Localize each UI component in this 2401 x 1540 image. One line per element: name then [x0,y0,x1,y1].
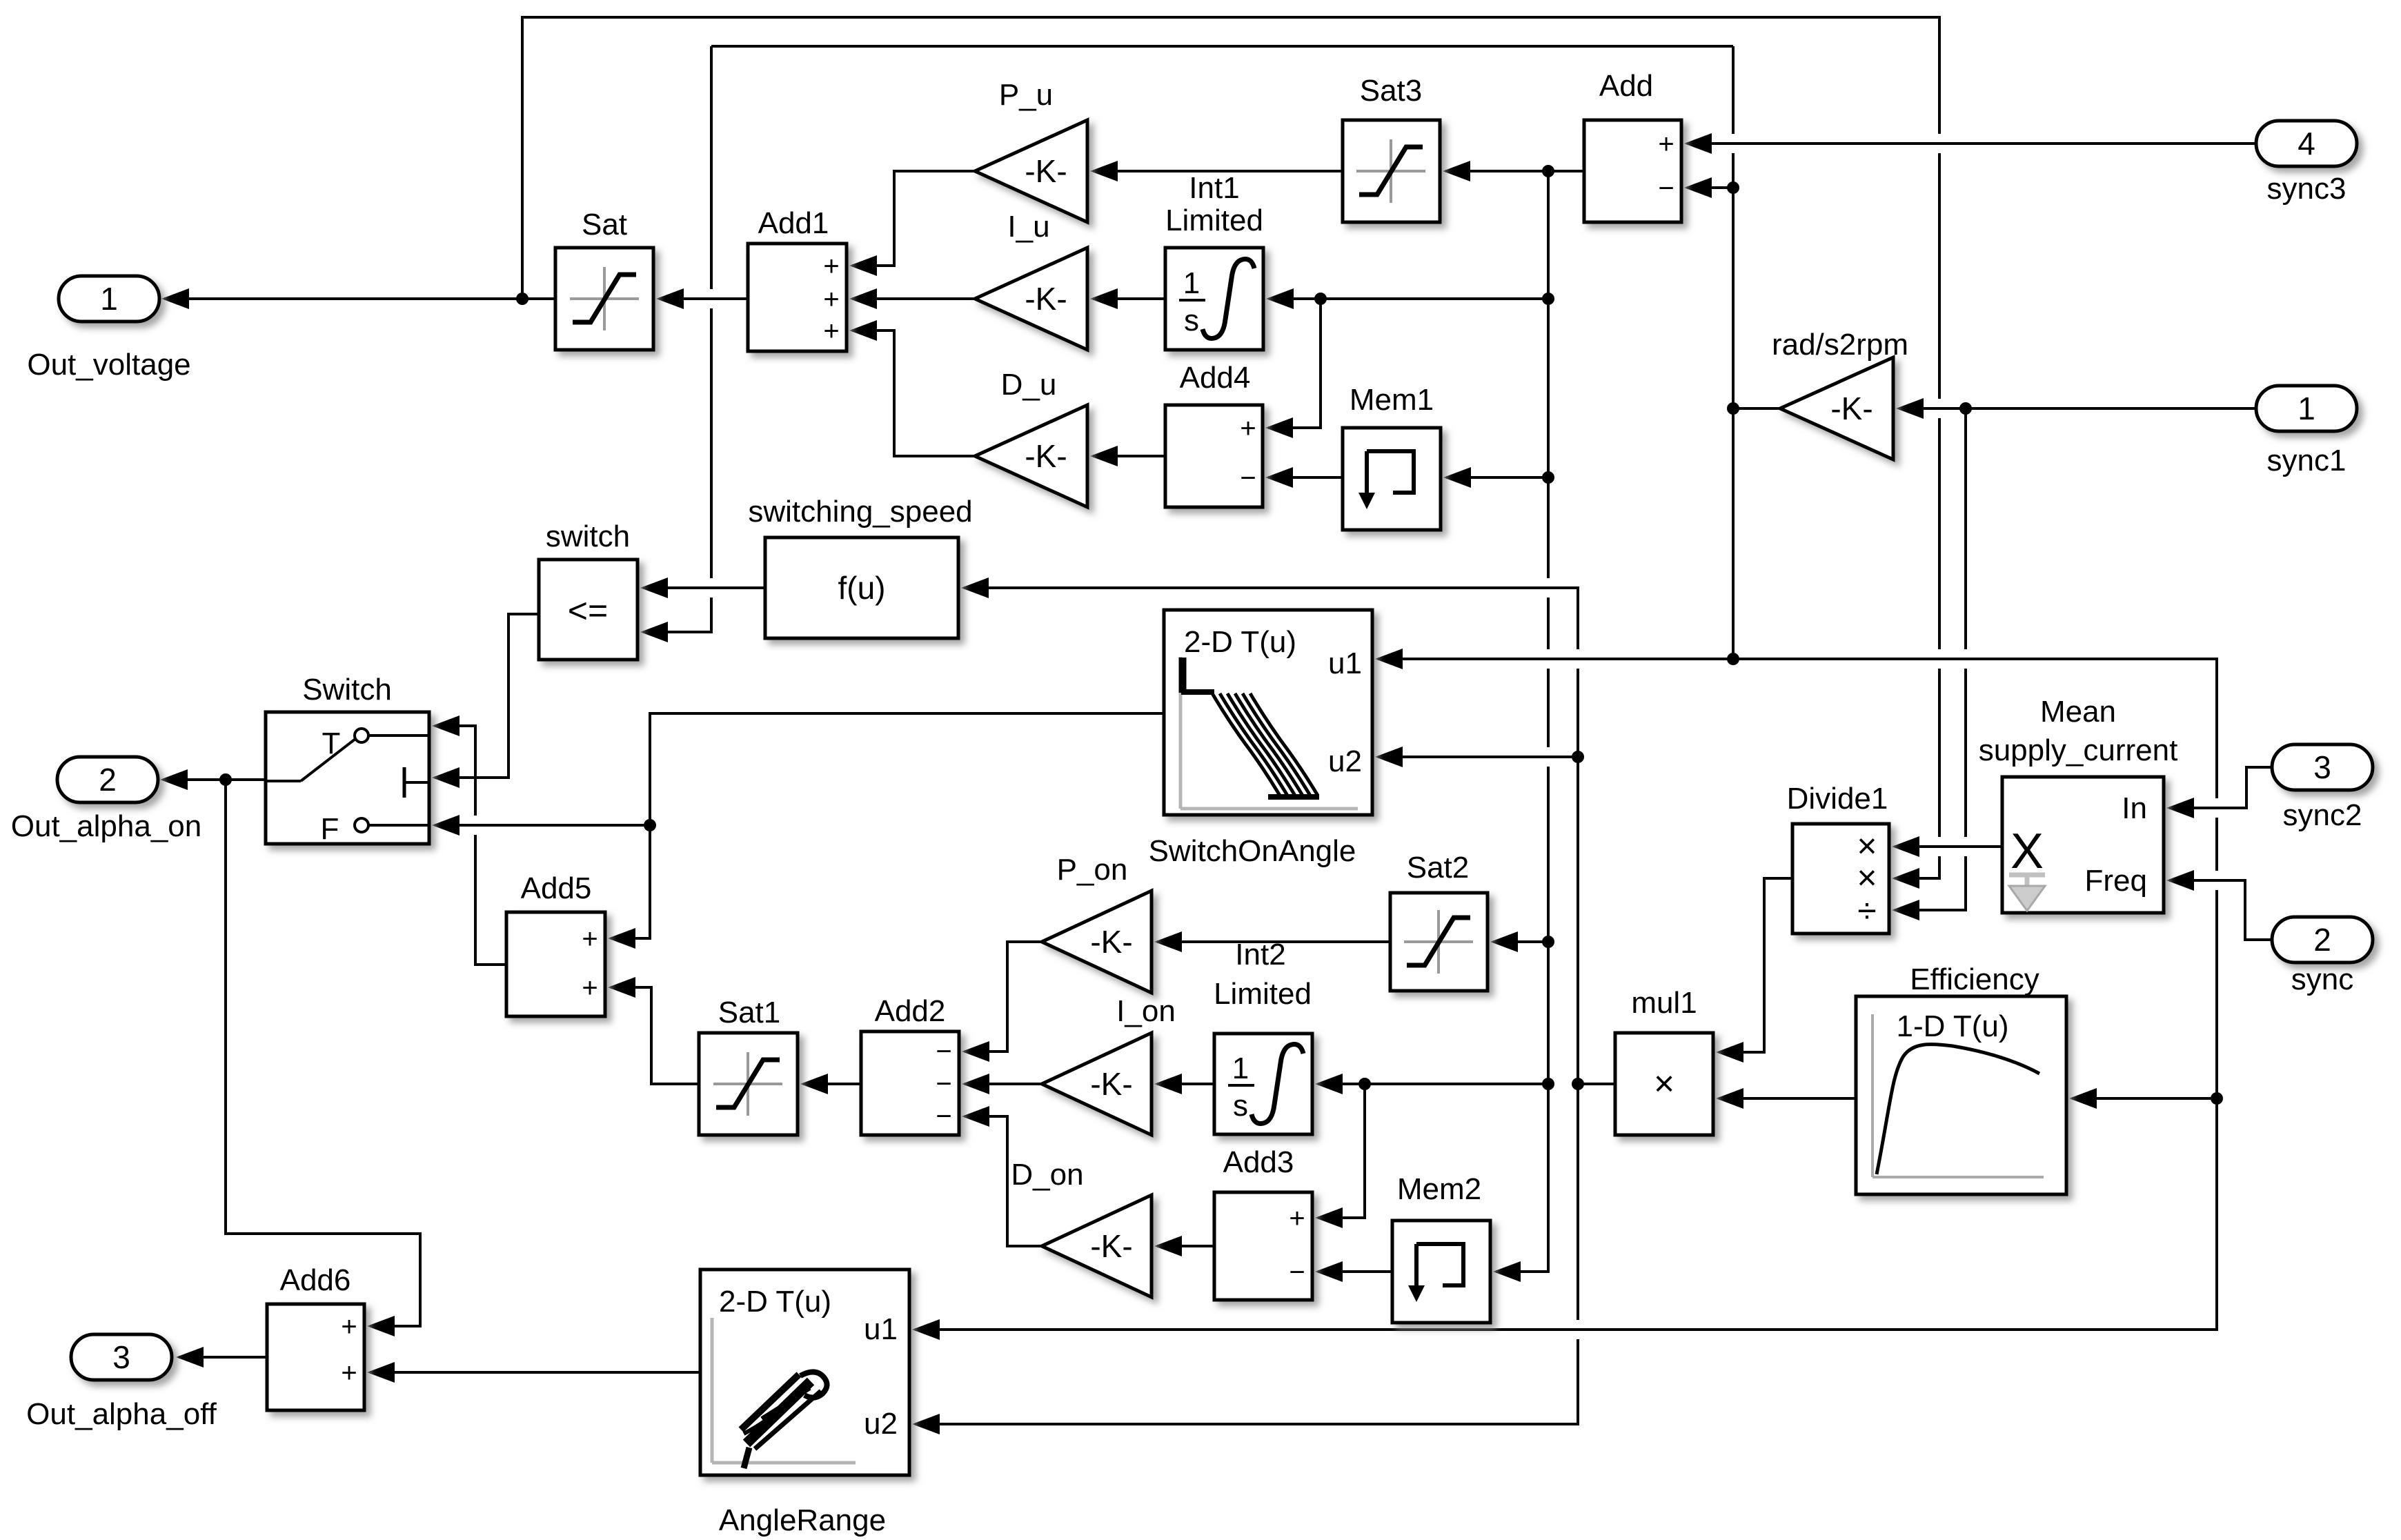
wire: I_on out to Add2 in2 [965,1083,1042,1085]
gain P_u [975,120,1087,222]
integrator Int2 Limited [1214,1034,1312,1134]
svg-text:Mean: Mean [2040,695,2116,729]
svg-text:2-D T(u): 2-D T(u) [1184,625,1296,659]
svg-text:Out_alpha_on: Out_alpha_on [11,809,201,843]
svg-text:Add: Add [1599,69,1653,103]
wire: rpm rail right segment to x=3213 [915,659,2217,1330]
svg-text:X: X [2010,824,2044,879]
svg-text:sync3: sync3 [2267,172,2346,206]
svg-text:AngleRange: AngleRange [719,1503,886,1537]
wire: F branch [435,824,650,827]
svg-text:−: − [936,1069,951,1099]
svg-text:Mem1: Mem1 [1350,383,1434,417]
svg-text:Out_voltage: Out_voltage [27,348,190,382]
wire: Add4 out to D_u input [1093,455,1165,457]
wire: Add5 out up to Switch T input [435,726,506,965]
svg-text:−: − [936,1036,951,1067]
wire: Sat2 out to P_on input [1157,940,1390,943]
svg-text:4: 4 [2298,126,2315,161]
svg-text:-K-: -K- [1025,281,1067,317]
input port 4 sync3 [2256,121,2357,166]
svg-text:+: + [1240,413,1256,444]
svg-text:SwitchOnAngle: SwitchOnAngle [1149,834,1356,868]
svg-text:Sat2: Sat2 [1407,851,1470,885]
lookup curves SwitchOnAngle [1179,658,1187,693]
svg-text:Limited: Limited [1165,204,1263,237]
wire: Add2 out to Sat1 [803,1083,861,1085]
gain rad/s2rpm [1780,357,1893,460]
svg-text:Sat1: Sat1 [718,996,781,1029]
wire: Sat out to Out_voltage [164,297,555,300]
wire: error rail vertical x=2244 [1496,171,1548,1272]
svg-text:I_on: I_on [1116,994,1176,1028]
wire: D_u out to Add1 in3 [852,330,975,456]
svg-text:Efficiency: Efficiency [1910,962,2039,996]
svg-text:2: 2 [99,762,117,798]
gain I_on [1042,1033,1152,1135]
svg-text:+: + [582,973,597,1003]
wire: Int2 out to I_on input [1157,1083,1214,1085]
svg-text:+: + [341,1358,357,1388]
wire: Int1 out to I_u input [1093,297,1165,300]
wire: f(u) out to switch upper input [643,586,765,589]
svg-text:Int1: Int1 [1189,171,1239,205]
svg-text:+: + [823,284,839,315]
1-D lookup table Efficiency [1856,996,2066,1194]
svg-text:+: + [582,924,597,954]
svg-text:f(u): f(u) [838,570,886,606]
wire: sync1 tap down to Divide1 divide input [1895,408,1966,910]
lookup curves AngleRange (scribble) [747,1381,811,1443]
wire: Mem2 out to Add3 minus [1318,1270,1392,1273]
gain D_on [1042,1195,1152,1297]
svg-text:Add1: Add1 [758,206,829,240]
wire crossing hops [709,289,714,308]
saturation block Sat3 [1343,120,1440,222]
wire: I_u out to Add1 in2 [852,297,975,300]
wire: sync2 to Mean In [2169,767,2272,808]
svg-text:supply_current: supply_current [1979,733,2178,767]
svg-text:1: 1 [1183,266,1200,300]
svg-text:Limited: Limited [1214,977,1312,1011]
svg-text:u2: u2 [864,1407,898,1441]
svg-text:mul1: mul1 [1631,986,1697,1020]
svg-text:Divide1: Divide1 [1787,782,1888,816]
wire junction dots [516,293,528,305]
wire: error to Int2 [1318,1083,1548,1085]
svg-text:+: + [1658,129,1674,159]
subsystem Mean supply_current [2002,777,2164,913]
svg-text:s: s [1233,1089,1248,1123]
svg-text:Add2: Add2 [875,994,946,1028]
product block Divide1 [1792,824,1889,934]
svg-text:−: − [1289,1257,1305,1287]
wire: AngleRange out to Add6 in2 [370,1371,700,1374]
input port 2 sync [2272,917,2373,962]
svg-text:D_u: D_u [1001,368,1057,402]
output port 2 Out_alpha_on [57,757,158,802]
svg-text:u2: u2 [1328,744,1362,778]
svg-text:Int2: Int2 [1235,938,1285,971]
wire: Efficiency out to mul1 in2 [1719,1097,1856,1100]
svg-text:T: T [322,727,341,760]
Mean block refresh icon [2009,873,2045,878]
input port 3 sync2 [2272,744,2373,790]
svg-text:-K-: -K- [1090,1228,1132,1264]
wire: SwitchOnAngle out to F input and Add5 in1 [611,713,1164,938]
wire: mul1 output rail [964,588,1615,1084]
wire: D_on out to Add2 in3 [965,1116,1042,1246]
svg-text:In: In [2122,791,2147,825]
wire: switch out down to Switch middle input [435,614,539,778]
svg-text:u1: u1 [864,1312,898,1346]
svg-text:Switch: Switch [302,673,392,707]
svg-text:-K-: -K- [1090,1066,1132,1102]
svg-text:Freq: Freq [2085,864,2147,898]
svg-text:Add5: Add5 [521,871,592,905]
sum block Add5 [506,912,605,1016]
svg-text:1-D T(u): 1-D T(u) [1897,1009,2009,1043]
wire: rpm vertical x=2512 [1732,46,1735,659]
svg-text:×: × [1654,1064,1674,1104]
2-D lookup table SwitchOnAngle [1164,610,1372,815]
gain D_u [975,405,1087,507]
wire: sync to Mean Freq [2169,880,2272,940]
svg-text:-K-: -K- [1830,391,1873,426]
memory block Mem1 [1343,428,1441,530]
svg-text:P_u: P_u [999,78,1053,112]
wire: error to Int1 [1269,297,1548,300]
wire: Add6 out to Out_alpha_off [179,1356,267,1359]
2-D lookup table AngleRange [700,1270,909,1475]
svg-text:1: 1 [2298,391,2315,426]
svg-text:sync2: sync2 [2283,798,2362,832]
wire: sync3 to Add plus [1687,142,2256,145]
sum block Add [1584,120,1681,222]
svg-text:Add4: Add4 [1180,361,1251,395]
svg-text:Sat3: Sat3 [1360,74,1423,108]
svg-text:-K-: -K- [1025,438,1067,474]
wire: Add3 out to D_on input [1157,1245,1214,1247]
output port 1 Out_voltage [59,276,159,322]
wire: mul1 out to SwitchOnAngle u2 [1378,756,1578,758]
wire: error branch down to Add4 plus [1268,299,1321,428]
svg-text:÷: ÷ [1857,891,1876,930]
svg-text:sync: sync [2291,962,2353,996]
relational operator block switch [539,560,638,660]
wire: error branch down to Add3 plus [1318,1084,1365,1218]
svg-text:−: − [1240,463,1256,493]
svg-text:1: 1 [100,281,118,317]
svg-text:2-D T(u): 2-D T(u) [719,1285,831,1319]
function block switching_speed [765,537,958,638]
svg-text:Out_alpha_off: Out_alpha_off [26,1397,217,1431]
sum block Add2 [861,1031,959,1135]
svg-text:−: − [1658,173,1674,204]
svg-text:Mem2: Mem2 [1397,1172,1481,1206]
svg-text:sync1: sync1 [2267,444,2346,477]
svg-text:+: + [1289,1203,1305,1234]
wire: error to Sat2 [1493,940,1548,943]
wire: sync1 to rad/s2rpm input [1899,407,2256,410]
svg-text:switching_speed: switching_speed [748,495,972,529]
svg-text:−: − [936,1101,951,1132]
svg-text:3: 3 [112,1339,130,1375]
wire: Sat3 out to P_u input [1093,170,1343,172]
wire: Sat output loop to Divide1 (top rail) [522,17,1939,878]
switch block Switch [266,712,429,844]
sum block Add6 [267,1304,364,1410]
sum block Add3 [1214,1192,1312,1300]
input port 1 sync1 [2256,386,2357,431]
wire: rad/s2rpm output to rail [1733,407,1780,410]
wire: P_u out to Add1 in1 [852,171,975,266]
wire: rpm tap to Efficiency input [2072,1097,2217,1100]
gain P_on [1042,891,1152,993]
svg-text:Sat: Sat [582,208,627,241]
wire: Divide1 out to mul1 in1 [1719,878,1792,1052]
lookup curve Efficiency [1877,1044,2039,1174]
product block mul1 [1615,1033,1713,1135]
wire: Add output to Sat3 [1445,170,1584,172]
svg-text:D_on: D_on [1011,1158,1083,1192]
svg-text:+: + [341,1312,357,1342]
wire: rpm rail to SwitchOnAngle u1 [1378,658,1733,660]
svg-text:s: s [1184,304,1199,337]
wire: Mem1 out to Add4 minus [1268,476,1343,479]
svg-text:+: + [823,316,839,346]
svg-text:u1: u1 [1328,646,1362,680]
svg-text:rad/s2rpm: rad/s2rpm [1772,328,1908,362]
saturation block Sat2 [1390,893,1488,991]
wire: mul1 out down to AngleRange u2 [915,1084,1578,1424]
sum block Add4 [1165,405,1263,507]
wire: Mean X out to Divide1 in1 [1895,845,2002,848]
wire: error to Mem1 [1446,476,1548,479]
wire: P_on out to Add2 in1 [965,942,1042,1052]
svg-text:I_u: I_u [1007,210,1049,244]
wire: rpm rail (rad/s2rpm output distribution) [711,45,1733,48]
saturation block Sat1 [699,1033,798,1135]
svg-text:-K-: -K- [1090,924,1132,960]
svg-text:P_on: P_on [1057,853,1128,887]
gain I_u [975,248,1087,350]
svg-text:Add3: Add3 [1223,1145,1294,1179]
wire: rpm rail down to switch lower input [643,46,711,632]
sum block Add1 [748,244,847,351]
memory block Mem2 [1392,1221,1490,1323]
svg-text:Add6: Add6 [280,1263,351,1297]
svg-text:switch: switch [546,520,630,553]
svg-text:-K-: -K- [1025,153,1067,189]
wire: Add1 out to Sat [659,297,748,300]
output port 3 Out_alpha_off [71,1334,172,1380]
saturation block Sat [555,248,653,350]
wire: alpha_on branch down to Add6 in1 [226,780,420,1326]
wire: Switch out to Out_alpha_on [163,778,266,781]
integrator Int1 Limited [1165,248,1263,350]
svg-text:2: 2 [2313,922,2331,958]
wire: rpm to Add minus input [1687,186,1733,189]
svg-text:1: 1 [1232,1052,1249,1085]
svg-text:F: F [321,812,339,846]
svg-text:3: 3 [2313,749,2331,785]
svg-text:<=: <= [568,591,608,630]
svg-text:+: + [823,251,839,282]
wire: Sat1 out up to Add5 in2 [611,987,699,1084]
